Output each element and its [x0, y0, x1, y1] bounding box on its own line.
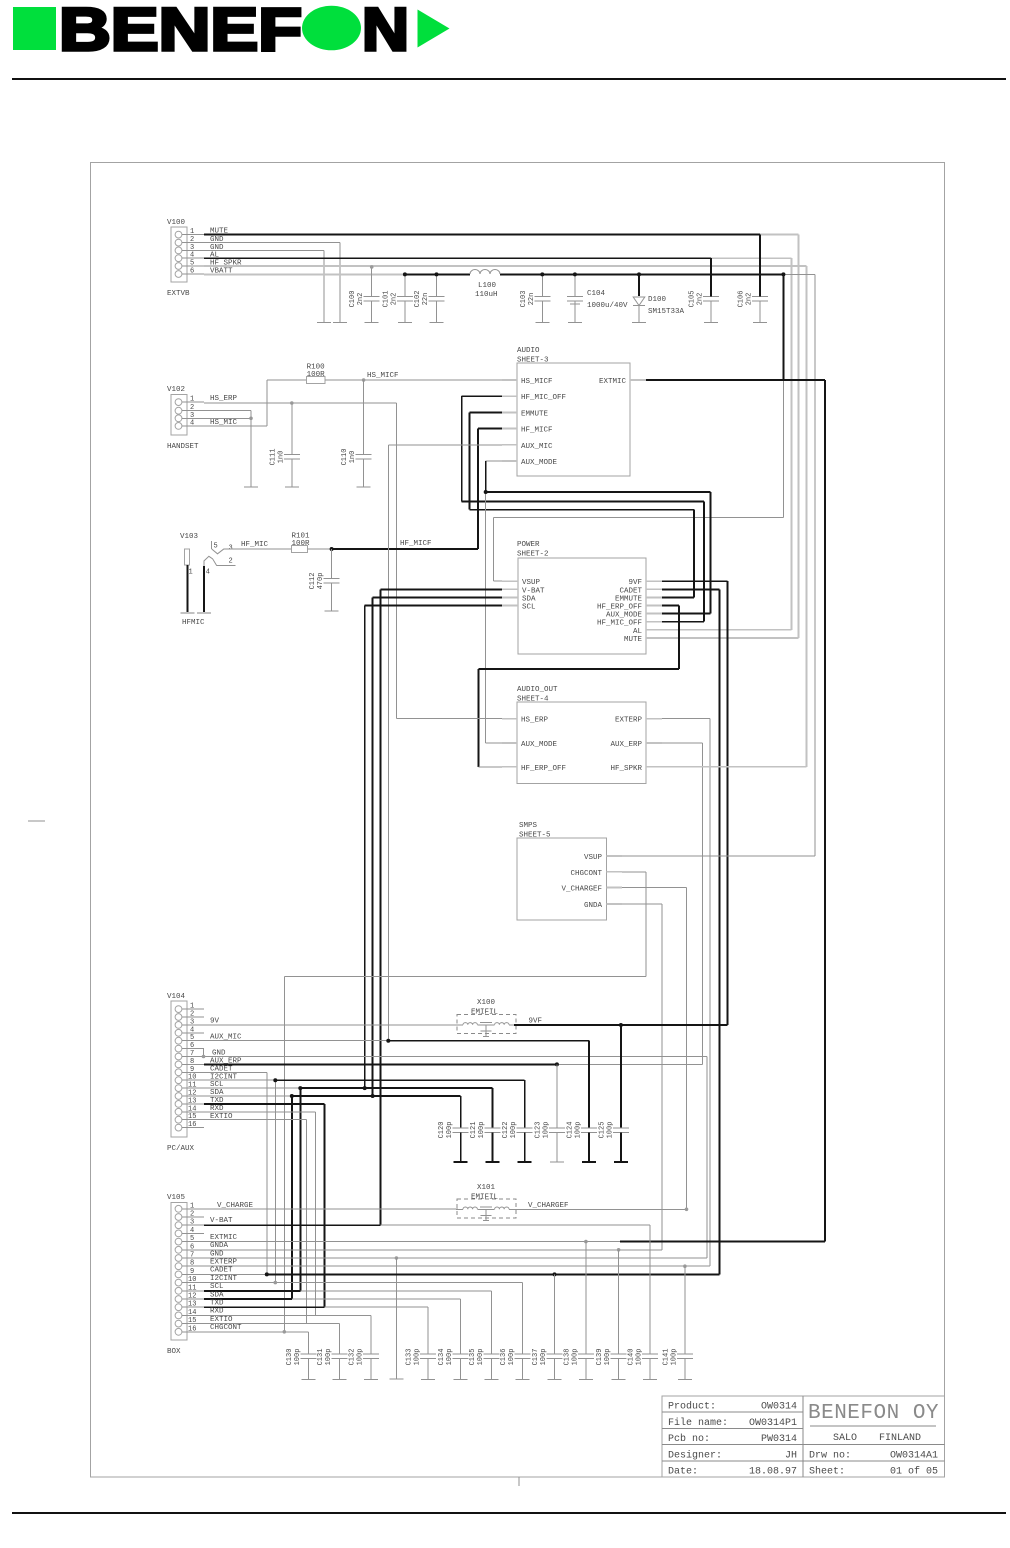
capacitor C111 — [284, 403, 300, 487]
svg-text:100p: 100p — [357, 1349, 365, 1366]
wire VSUP SMPS — [622, 855, 815, 857]
junction HS_MICF/C110 — [362, 378, 366, 382]
wire MUTE — [204, 228, 760, 236]
svg-text:GNDA: GNDA — [210, 1242, 229, 1250]
wire HS_MIC — [204, 380, 267, 427]
svg-text:V103: V103 — [180, 533, 199, 541]
svg-text:CHGCONT: CHGCONT — [570, 870, 602, 878]
connector V105 — [167, 1194, 204, 1356]
capacitor C101 — [397, 274, 413, 322]
wire V_CHARGEF — [514, 1202, 687, 1210]
capacitor C112 — [324, 549, 340, 611]
wire AUX_MIC riser — [388, 445, 502, 1041]
svg-text:GNDA: GNDA — [584, 902, 603, 910]
connector V104 — [167, 993, 204, 1153]
svg-text:EMIFIL: EMIFIL — [471, 1009, 499, 1017]
wire HF_MIC_OFF AUDIO to POWER — [462, 396, 704, 622]
junction SCL riser POWER — [363, 1086, 367, 1090]
resistor R101 — [292, 546, 308, 553]
svg-text:C110: C110 — [341, 449, 349, 466]
wire I2CINT row V105 — [204, 1275, 523, 1283]
svg-text:4: 4 — [190, 252, 194, 260]
wire AUX_MODE into AUDIO_OUT — [486, 742, 502, 744]
wire V_CHARGEF SMPS — [622, 888, 687, 1210]
svg-text:V-BAT: V-BAT — [522, 587, 545, 595]
svg-text:1: 1 — [190, 396, 194, 404]
wire SDA row — [204, 1089, 461, 1299]
ground V100 pin3 — [317, 250, 331, 322]
capacitor C137 — [547, 1274, 563, 1379]
wire VBATT to POWER VSUP — [494, 274, 784, 581]
wire SDA POWER riser — [373, 597, 502, 1096]
svg-text:EXTVB: EXTVB — [167, 290, 190, 298]
title block — [662, 1396, 945, 1477]
junction EXTMIC/C138 — [584, 1240, 588, 1244]
svg-text:X101: X101 — [477, 1184, 496, 1192]
svg-text:C106: C106 — [738, 291, 746, 308]
svg-text:5: 5 — [214, 543, 218, 551]
svg-text:7: 7 — [190, 1050, 194, 1058]
svg-text:5: 5 — [190, 1034, 194, 1042]
svg-text:X100: X100 — [477, 999, 496, 1007]
logo green triangle — [418, 10, 450, 48]
junction AUX_MODE — [484, 490, 488, 494]
capacitor C135 — [483, 1291, 499, 1380]
svg-text:BOX: BOX — [167, 1348, 181, 1356]
svg-text:C137: C137 — [532, 1349, 540, 1366]
svg-text:10: 10 — [188, 1276, 196, 1284]
capacitor C138 — [578, 1242, 594, 1380]
junction AUX_MIC riser — [386, 1039, 390, 1043]
svg-text:HS_ERP: HS_ERP — [210, 395, 238, 403]
capacitor C125 — [613, 1025, 629, 1162]
svg-text:SHEET-2: SHEET-2 — [517, 551, 549, 559]
hierarchical block AUDIO_OUT SHEET-4 — [502, 686, 662, 784]
junction GND pin6/7 — [202, 1055, 206, 1059]
fold mark left — [28, 820, 45, 822]
ground V103 pin1 — [180, 565, 194, 613]
inductor L100 — [470, 270, 500, 300]
svg-text:2n2: 2n2 — [390, 293, 398, 306]
junction HF_SPKR/C100 — [370, 265, 374, 269]
svg-text:9: 9 — [190, 1066, 194, 1074]
svg-text:I2CINT: I2CINT — [210, 1275, 238, 1283]
svg-text:Drw no:: Drw no: — [809, 1450, 851, 1461]
wire VBATT to SMPS VSUP riser — [783, 274, 814, 856]
svg-text:HF_MICF: HF_MICF — [400, 540, 432, 548]
ground V100 pin2 — [333, 243, 347, 323]
wire 9VF POWER to EMIFIL — [662, 581, 728, 1025]
wire SDA row V105 — [204, 1291, 460, 1299]
svg-text:HF_SPKR: HF_SPKR — [610, 765, 642, 773]
wire TXD V104 to V105 — [204, 1097, 324, 1307]
ground GND rail drop — [389, 1258, 403, 1379]
capacitor C133 — [420, 1307, 436, 1379]
wire EXTIO V104 to V105 — [204, 1113, 307, 1324]
svg-text:L100: L100 — [478, 282, 497, 290]
svg-text:AUX_ERP: AUX_ERP — [610, 741, 642, 749]
svg-text:V_CHARGEF: V_CHARGEF — [528, 1202, 569, 1210]
svg-text:01 of 05: 01 of 05 — [890, 1466, 938, 1478]
capacitor C100 — [364, 267, 380, 323]
svg-text:C136: C136 — [500, 1349, 508, 1366]
capacitor C141 — [677, 1266, 693, 1379]
svg-text:VSUP: VSUP — [522, 579, 541, 587]
svg-text:C102: C102 — [414, 291, 422, 308]
svg-text:C103: C103 — [520, 291, 528, 308]
svg-text:C122: C122 — [502, 1122, 510, 1139]
svg-text:C111: C111 — [269, 449, 277, 466]
svg-text:4: 4 — [190, 1026, 194, 1034]
svg-text:V100: V100 — [167, 219, 186, 227]
wire CHGCONT row V105 — [204, 1324, 308, 1332]
svg-text:100R: 100R — [292, 540, 311, 548]
svg-text:HF_MIC_OFF: HF_MIC_OFF — [521, 394, 566, 402]
svg-text:1n0: 1n0 — [349, 451, 357, 464]
capacitor C103 — [534, 274, 550, 322]
wire TXD row V105 — [204, 1300, 428, 1308]
capacitor C136 — [515, 1283, 531, 1380]
junction SCL riser V105 — [298, 1086, 302, 1090]
svg-text:SALO: SALO — [833, 1433, 857, 1444]
junction GNDA/C139 — [617, 1248, 621, 1252]
capacitor C122 — [517, 1080, 533, 1162]
svg-text:FINLAND: FINLAND — [879, 1433, 921, 1444]
svg-text:4: 4 — [190, 1227, 194, 1235]
svg-text:6: 6 — [190, 268, 194, 276]
svg-text:AUX_MIC: AUX_MIC — [521, 443, 553, 451]
svg-text:File name:: File name: — [668, 1417, 728, 1429]
svg-text:100p: 100p — [670, 1349, 678, 1366]
svg-text:HF_ERP_OFF: HF_ERP_OFF — [597, 604, 642, 612]
wire RXD row V105 — [204, 1308, 371, 1316]
svg-text:2n2: 2n2 — [746, 293, 754, 306]
svg-text:100p: 100p — [325, 1349, 333, 1366]
svg-text:Date:: Date: — [668, 1467, 698, 1478]
EMIFIL X101 — [456, 1184, 516, 1221]
svg-text:2: 2 — [190, 1211, 194, 1219]
svg-text:1: 1 — [190, 1202, 194, 1210]
wire SCL row V105 — [204, 1283, 491, 1291]
svg-text:15: 15 — [188, 1317, 196, 1325]
svg-text:EMIFIL: EMIFIL — [471, 1194, 499, 1202]
svg-text:C130: C130 — [286, 1349, 294, 1366]
svg-text:100p: 100p — [510, 1122, 518, 1139]
svg-text:100p: 100p — [542, 1122, 550, 1139]
svg-text:V_CHARGEF: V_CHARGEF — [561, 886, 602, 894]
svg-text:100p: 100p — [477, 1349, 485, 1366]
junction V_CHARGEF riser — [685, 1208, 689, 1212]
wire GNDA SMPS to V105 — [622, 904, 662, 1250]
svg-text:5: 5 — [190, 260, 194, 268]
resistor R100 — [267, 379, 307, 381]
svg-text:V102: V102 — [167, 386, 185, 394]
svg-text:100p: 100p — [606, 1122, 614, 1139]
junction VBATT/C104 — [573, 272, 577, 276]
svg-text:BENEF: BENEF — [59, 0, 302, 63]
svg-text:AL: AL — [633, 628, 643, 636]
capacitor C110 — [356, 380, 372, 487]
wire AL extension to riser — [662, 258, 792, 630]
wire GND pin3 to ground — [204, 244, 324, 252]
svg-text:7: 7 — [190, 1252, 194, 1260]
svg-text:3: 3 — [190, 244, 194, 252]
svg-text:22n: 22n — [528, 293, 536, 306]
svg-text:HS_MICF: HS_MICF — [521, 378, 553, 386]
svg-text:CADET: CADET — [210, 1267, 233, 1275]
wire GND row V105 — [204, 1250, 707, 1258]
svg-text:100p: 100p — [294, 1349, 302, 1366]
svg-text:C131: C131 — [317, 1349, 325, 1366]
wire MUTE to C106 — [759, 235, 761, 297]
wire HS_ERP — [204, 395, 396, 403]
svg-text:C100: C100 — [349, 291, 357, 308]
svg-text:BENEFON OY: BENEFON OY — [808, 1402, 939, 1425]
wire EMMUTE AUDIO to POWER — [470, 412, 694, 597]
wire GNDA row V105 — [204, 1242, 662, 1250]
hierarchical block SMPS SHEET-5 — [517, 822, 622, 920]
svg-text:110uH: 110uH — [475, 291, 498, 299]
EMIFIL X100 — [456, 999, 516, 1036]
svg-text:EMMUTE: EMMUTE — [521, 410, 549, 418]
svg-text:HANDSET: HANDSET — [167, 443, 199, 451]
junction VBATT/C102 — [435, 272, 439, 276]
svg-text:HF_ERP_OFF: HF_ERP_OFF — [521, 765, 566, 773]
wire HS_MICF — [325, 372, 502, 380]
svg-text:HS_ERP: HS_ERP — [521, 717, 549, 725]
diode D100 SM15T33A — [632, 274, 685, 322]
wire AUX_ERP row — [204, 1057, 703, 1065]
svg-text:15: 15 — [188, 1113, 196, 1121]
svg-text:OW0314A1: OW0314A1 — [890, 1450, 938, 1461]
wire HS_ERP into AUDIO_OUT — [396, 718, 502, 720]
svg-text:C139: C139 — [596, 1349, 604, 1366]
svg-text:Product:: Product: — [668, 1401, 716, 1413]
wire AUX_ERP to V104 — [662, 743, 703, 1065]
svg-text:C105: C105 — [689, 291, 697, 308]
svg-text:SMPS: SMPS — [519, 822, 538, 830]
wire CADET row V105 — [204, 1267, 719, 1275]
svg-text:POWER: POWER — [517, 541, 540, 549]
svg-text:C123: C123 — [534, 1122, 542, 1139]
svg-text:EMMUTE: EMMUTE — [615, 595, 643, 603]
svg-text:V105: V105 — [167, 1194, 186, 1202]
svg-text:1000u/40V: 1000u/40V — [587, 302, 628, 310]
svg-text:JH: JH — [785, 1450, 797, 1461]
junction V102 pin3 ground — [249, 417, 253, 421]
connector V100 — [167, 219, 204, 298]
svg-text:100p: 100p — [540, 1349, 548, 1366]
svg-text:C134: C134 — [438, 1349, 446, 1366]
svg-text:3: 3 — [190, 1018, 194, 1026]
wire HF_ERP_OFF POWER to AUDIO_OUT — [478, 606, 679, 767]
wire AL to C105 — [710, 258, 712, 296]
svg-text:2: 2 — [229, 558, 233, 566]
svg-text:SM15T33A: SM15T33A — [648, 308, 685, 316]
svg-text:2n2: 2n2 — [697, 293, 705, 306]
svg-text:100p: 100p — [636, 1349, 644, 1366]
svg-text:2n2: 2n2 — [357, 293, 365, 306]
fold mark bottom — [518, 1477, 520, 1486]
svg-text:HF_MIC_OFF: HF_MIC_OFF — [597, 620, 642, 628]
svg-text:VSUP: VSUP — [584, 854, 603, 862]
svg-text:MUTE: MUTE — [624, 636, 643, 644]
capacitor C120 — [453, 1096, 469, 1162]
svg-text:C140: C140 — [628, 1349, 636, 1366]
svg-text:100p: 100p — [446, 1122, 454, 1139]
svg-text:100p: 100p — [446, 1349, 454, 1366]
junction I2CINT riser — [273, 1078, 277, 1082]
svg-text:C141: C141 — [662, 1349, 670, 1366]
capacitor C130 — [300, 1332, 316, 1380]
wire HS_ERP riser to AUDIO_OUT — [395, 403, 397, 719]
footer rule — [12, 1512, 1006, 1514]
svg-text:CADET: CADET — [619, 587, 642, 595]
svg-text:N: N — [362, 0, 409, 63]
svg-text:EXTIO: EXTIO — [210, 1316, 233, 1324]
capacitor C132 — [363, 1315, 379, 1379]
wire EXTMIC — [646, 380, 825, 1242]
junction VBATT/VSUP riser — [781, 272, 785, 276]
capacitor C124 — [581, 1041, 597, 1162]
svg-text:3: 3 — [190, 1219, 194, 1227]
junction VBATT/C103 — [540, 272, 544, 276]
svg-text:100p: 100p — [414, 1349, 422, 1366]
svg-text:HF_MIC: HF_MIC — [241, 541, 269, 549]
svg-text:EXTERP: EXTERP — [615, 717, 643, 725]
svg-text:D100: D100 — [648, 296, 667, 304]
svg-text:11: 11 — [188, 1082, 196, 1090]
svg-text:CHGCONT: CHGCONT — [210, 1324, 242, 1332]
svg-text:PC/AUX: PC/AUX — [167, 1145, 195, 1153]
svg-text:C104: C104 — [587, 290, 606, 298]
svg-text:Sheet:: Sheet: — [809, 1466, 845, 1478]
underline company — [810, 1425, 936, 1427]
svg-text:Pcb no:: Pcb no: — [668, 1433, 710, 1445]
wire EXTERP row V105 — [204, 1259, 710, 1267]
wire CADET V104 to V105 — [204, 1065, 267, 1274]
junction GND drop — [395, 1256, 399, 1260]
svg-text:EXTERP: EXTERP — [210, 1259, 238, 1267]
svg-text:100R: 100R — [307, 371, 326, 379]
svg-text:12: 12 — [188, 1090, 196, 1098]
wire I2CINT row — [204, 1073, 525, 1282]
wire HF_MIC — [224, 541, 292, 549]
svg-text:AUDIO_OUT: AUDIO_OUT — [517, 686, 558, 694]
wire GND pin2 to ground — [204, 236, 340, 244]
company location SALO FINLAND — [833, 1433, 921, 1444]
svg-text:HFMIC: HFMIC — [182, 619, 205, 627]
svg-text:8: 8 — [190, 1058, 194, 1066]
wire CADET POWER to V105 — [662, 589, 719, 1274]
svg-text:14: 14 — [188, 1309, 196, 1317]
title block texts — [668, 1401, 938, 1478]
capacitor C131 — [332, 1324, 348, 1380]
svg-text:18.08.97: 18.08.97 — [749, 1467, 797, 1478]
junction HF_MICF/C112 — [330, 547, 334, 551]
junction CADET riser V104 — [265, 1272, 269, 1276]
svg-text:C112: C112 — [309, 573, 317, 590]
svg-text:C138: C138 — [563, 1349, 571, 1366]
svg-text:100p: 100p — [571, 1349, 579, 1366]
header rule — [12, 78, 1006, 80]
svg-text:5: 5 — [190, 1235, 194, 1243]
ground V102 — [244, 411, 258, 487]
svg-text:RXD: RXD — [210, 1308, 224, 1316]
svg-text:V104: V104 — [167, 993, 186, 1001]
svg-text:EXTMIC: EXTMIC — [210, 1234, 238, 1242]
svg-text:C132: C132 — [349, 1349, 357, 1366]
svg-text:C121: C121 — [470, 1122, 478, 1139]
capacitor C105 — [703, 297, 719, 323]
junction SDA riser V105 — [290, 1094, 294, 1098]
logo green ellipse O — [302, 6, 361, 51]
svg-text:2: 2 — [190, 1011, 194, 1019]
svg-text:100p: 100p — [508, 1349, 516, 1366]
svg-text:C125: C125 — [598, 1122, 606, 1139]
svg-text:GND: GND — [210, 1250, 224, 1258]
wire SCL POWER riser — [365, 606, 502, 1089]
svg-text:22n: 22n — [422, 293, 430, 306]
svg-text:HF_MICF: HF_MICF — [521, 427, 553, 435]
junction CHGCONT riser — [283, 1330, 287, 1334]
svg-text:AUX_MODE: AUX_MODE — [521, 459, 558, 467]
svg-text:Designer:: Designer: — [668, 1449, 722, 1461]
wire RXD V104 to V105 — [204, 1105, 316, 1315]
svg-text:C101: C101 — [382, 291, 390, 308]
svg-text:AUX_MIC: AUX_MIC — [210, 1033, 242, 1041]
svg-text:1n0: 1n0 — [277, 451, 285, 464]
svg-text:4: 4 — [206, 569, 210, 577]
svg-text:9: 9 — [190, 1268, 194, 1276]
svg-text:HS_MICF: HS_MICF — [367, 372, 399, 380]
junction AUX_ERP/C123 — [555, 1062, 559, 1066]
svg-text:100p: 100p — [604, 1349, 612, 1366]
junction I2CINT riser V104 — [274, 1281, 278, 1285]
wire EXTIO row V105 — [204, 1316, 340, 1324]
capacitor C123 — [549, 1064, 565, 1162]
connector V102 — [167, 386, 204, 451]
svg-text:4: 4 — [190, 419, 194, 427]
junction 9VF/C125 — [619, 1023, 623, 1027]
svg-text:16: 16 — [188, 1325, 196, 1333]
svg-text:C120: C120 — [438, 1122, 446, 1139]
svg-text:470p: 470p — [317, 573, 325, 590]
capacitor C140 — [642, 1225, 658, 1379]
connector V103 jack — [180, 533, 235, 577]
capacitor C139 — [611, 1250, 627, 1380]
svg-text:12: 12 — [188, 1293, 196, 1301]
wire V-BAT row V105 — [204, 1217, 650, 1225]
svg-text:13: 13 — [188, 1097, 196, 1105]
junction HS_ERP/C111 — [290, 401, 294, 405]
svg-text:AUX_MODE: AUX_MODE — [521, 741, 558, 749]
svg-text:16: 16 — [188, 1121, 196, 1129]
svg-text:C124: C124 — [566, 1122, 574, 1139]
svg-text:13: 13 — [188, 1301, 196, 1309]
svg-text:10: 10 — [188, 1074, 196, 1082]
wire V102 pins 2-3 to ground — [204, 411, 251, 419]
wire SCL row — [204, 1081, 493, 1291]
svg-text:EXTMIC: EXTMIC — [599, 378, 627, 386]
junction VBATT/D100 — [637, 272, 641, 276]
ground V103 pin4 — [197, 566, 211, 613]
junction CADET/C137 — [553, 1272, 557, 1276]
capacitor C106 — [752, 297, 768, 323]
svg-text:14: 14 — [188, 1105, 196, 1113]
svg-text:SCL: SCL — [522, 604, 536, 612]
capacitor C102 — [429, 274, 445, 322]
